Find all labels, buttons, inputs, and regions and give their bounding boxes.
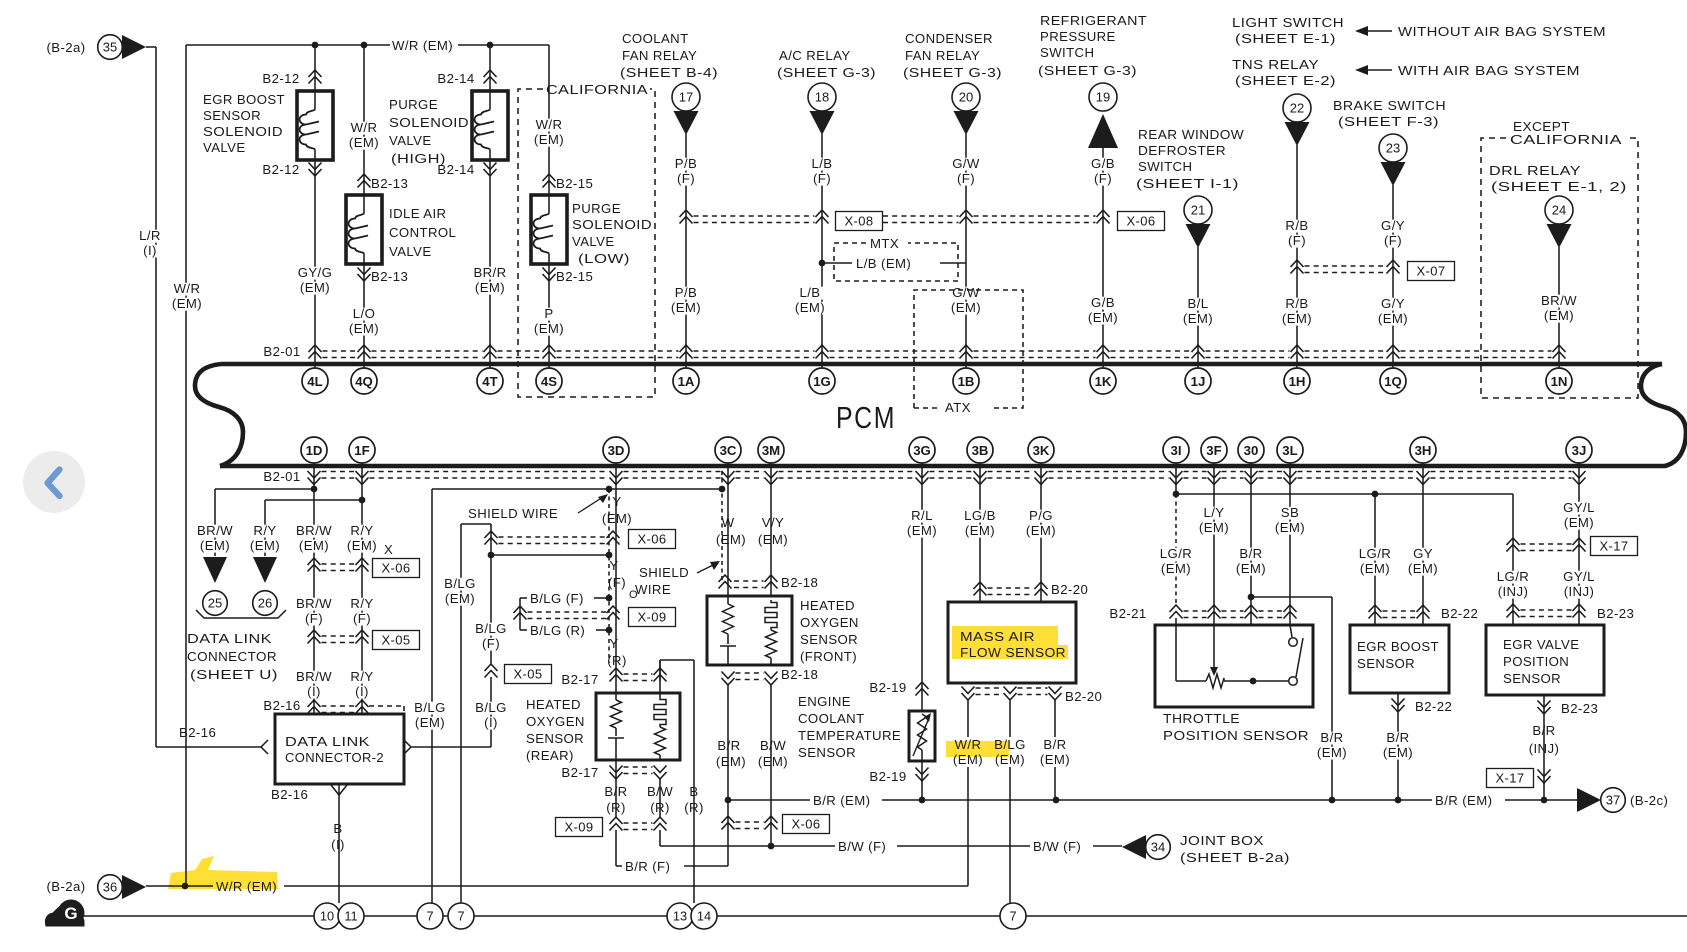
svg-text:1G: 1G (813, 374, 831, 389)
connector chevron bracket X-09 (514, 606, 527, 620)
svg-text:B2-16: B2-16 (263, 698, 300, 713)
svg-text:(B-2c): (B-2c) (1630, 793, 1668, 808)
svg-text:7: 7 (1009, 909, 1016, 924)
label BR/W (EM) x314 (296, 525, 333, 538)
svg-text:L/Y: L/Y (1204, 505, 1225, 520)
svg-text:FLOW SENSOR: FLOW SENSOR (960, 645, 1066, 660)
svg-text:B2-14: B2-14 (437, 162, 474, 177)
label P/B (EM) (672, 287, 701, 300)
label L/O (EM) (350, 308, 379, 321)
wire y555 to 3D (491, 554, 609, 556)
junction dot 1F branch (359, 497, 366, 504)
resistor TPS potentiometer (1206, 674, 1224, 688)
arrow 26 triangle (253, 557, 277, 583)
junction dot B/W(F) line (768, 843, 775, 850)
svg-text:R/Y: R/Y (350, 596, 373, 611)
svg-text:L/B (EM): L/B (EM) (856, 256, 911, 271)
wire B/R (F) horizontal (616, 865, 622, 867)
svg-text:X-05: X-05 (381, 633, 410, 648)
wire 3I column (1175, 463, 1177, 494)
svg-text:(EM): (EM) (965, 523, 995, 538)
svg-text:(EM): (EM) (1040, 752, 1070, 767)
svg-text:CALIFORNIA: CALIFORNIA (1510, 132, 1622, 147)
wire P (EM) 4S lower (548, 264, 550, 368)
PCM box top edge (221, 362, 1662, 367)
svg-text:(F): (F) (482, 636, 500, 651)
svg-text:SB: SB (1281, 505, 1299, 520)
arrow 35 triangle (122, 35, 146, 59)
highlight W/R B/LG under MAF (946, 741, 1009, 757)
wire 3B column (979, 463, 981, 602)
wire 4Q column upper (363, 45, 365, 195)
label BR/R (EM) (472, 267, 509, 280)
svg-text:W/R: W/R (955, 737, 982, 752)
svg-text:(EM): (EM) (300, 280, 330, 295)
highlight swoosh at bottom-left W/R (EM) (168, 856, 278, 889)
svg-text:(EM): (EM) (1282, 311, 1312, 326)
pin 1D (301, 437, 327, 463)
wire 3L column (1289, 463, 1291, 643)
svg-text:WIRE: WIRE (635, 582, 671, 597)
wire 4T column upper (489, 45, 491, 91)
wire B/R (EM) below front box (727, 685, 729, 866)
bus B2-01 top dashed pair (323, 350, 357, 352)
svg-text:CALIFORNIA: CALIFORNIA (546, 82, 648, 97)
label L/B (F) (808, 158, 837, 171)
svg-text:B2-13: B2-13 (371, 269, 408, 284)
svg-text:B2-15: B2-15 (556, 269, 593, 284)
resistor meander rear HO2S right (659, 660, 661, 697)
svg-text:R/B: R/B (1285, 218, 1308, 233)
wire L/R to DLC-2 (156, 746, 261, 748)
label B/R (EM) 30 (1237, 548, 1266, 561)
svg-text:(R): (R) (606, 800, 626, 815)
connector chevron B2-13 lower (358, 268, 371, 282)
wire 1K column (1102, 148, 1104, 368)
svg-text:(EM): (EM) (1317, 745, 1347, 760)
svg-text:G/Y: G/Y (1381, 218, 1405, 233)
svg-text:L/R: L/R (139, 228, 161, 243)
svg-text:(EM): (EM) (534, 132, 564, 147)
connector circle 36 (98, 875, 123, 900)
svg-text:R/Y: R/Y (350, 669, 373, 684)
terminal circle 7 (417, 903, 443, 929)
svg-text:B2-23: B2-23 (1561, 701, 1598, 716)
wire 3I dashed to TPS (1175, 494, 1177, 605)
svg-text:X-06: X-06 (791, 817, 820, 832)
svg-text:(SHEET I-1): (SHEET I-1) (1136, 176, 1239, 191)
svg-text:B/R (EM): B/R (EM) (813, 793, 870, 808)
component EGR valve position sensor box (1486, 625, 1604, 695)
svg-text:GY/G: GY/G (298, 265, 333, 280)
wire B/W (EM) below front box (770, 685, 772, 846)
PCM box right break squiggle (1641, 364, 1686, 466)
svg-text:Y: Y (612, 494, 621, 509)
svg-text:(SHEET U): (SHEET U) (190, 667, 278, 682)
label L/B (EM) (796, 287, 825, 300)
wire B/LG (I) x491 to DLC-2 (490, 677, 492, 747)
svg-text:(EM): (EM) (907, 523, 937, 538)
label G/Y (EM) (1379, 298, 1408, 311)
wire from arrow 35 to L/R column (146, 46, 156, 48)
svg-text:B: B (333, 821, 342, 836)
svg-text:B2-16: B2-16 (271, 787, 308, 802)
connector circle 18 (808, 83, 836, 111)
svg-text:B/R: B/R (1239, 546, 1262, 561)
svg-text:1Q: 1Q (1384, 374, 1402, 389)
svg-text:SWITCH: SWITCH (1040, 45, 1094, 60)
svg-text:R/B: R/B (1285, 296, 1308, 311)
connector chevron B2-23 lower (1538, 701, 1551, 715)
svg-text:SHIELD WIRE: SHIELD WIRE (468, 506, 558, 521)
svg-text:POSITION SENSOR: POSITION SENSOR (1163, 728, 1309, 743)
svg-text:(SHEET G-3): (SHEET G-3) (777, 65, 876, 80)
boxed label X-08 (836, 212, 883, 231)
svg-text:P: P (544, 306, 553, 321)
junction dot TPS (1250, 678, 1257, 685)
svg-text:(I): (I) (143, 243, 157, 258)
wire below EGR boost (1397, 693, 1399, 800)
junction dot 3D y555 (606, 552, 613, 559)
svg-text:SENSOR: SENSOR (800, 632, 858, 647)
svg-text:1J: 1J (1191, 374, 1206, 389)
label R/Y (I) (348, 671, 377, 684)
contact TPS lower (1289, 677, 1298, 686)
label GY/L (EM) (1561, 502, 1598, 515)
arrow 37 triangle (1577, 788, 1601, 812)
connector chevrons B2-17 upper (610, 668, 623, 682)
connector chevrons X-06 1D/1F (308, 558, 321, 572)
wire 30 column (1250, 463, 1252, 681)
wire 1N column (1558, 247, 1560, 368)
wire 3K column (1040, 463, 1042, 602)
connector chevrons B2-22 (1369, 605, 1382, 619)
svg-text:BR/W: BR/W (296, 596, 332, 611)
svg-text:G/W: G/W (952, 285, 980, 300)
boxed label X-07 (1408, 262, 1455, 281)
boxed label X-09 3D (629, 608, 676, 627)
svg-text:3K: 3K (1033, 443, 1050, 458)
svg-text:X-06: X-06 (381, 561, 410, 576)
svg-text:34: 34 (1151, 840, 1165, 855)
svg-text:(INJ): (INJ) (1564, 584, 1595, 599)
svg-text:SWITCH: SWITCH (1138, 159, 1192, 174)
wire shield horizontal y489 (432, 488, 722, 490)
junction dot MTX on 1G (819, 260, 826, 267)
junction dot B/LG(F) on 3D (606, 595, 613, 602)
label G/Y (F) (1379, 220, 1408, 233)
terminal circle 11 (338, 903, 364, 929)
svg-text:(SHEET G-3): (SHEET G-3) (903, 65, 1002, 80)
svg-text:(SHEET B-4): (SHEET B-4) (620, 65, 718, 80)
svg-text:(B-2a): (B-2a) (46, 879, 85, 894)
svg-text:TEMPERATURE: TEMPERATURE (798, 728, 901, 743)
svg-text:B/L: B/L (1188, 296, 1209, 311)
highlight MASS AIR FLOW SENSOR (952, 626, 1058, 645)
wire 1F column (361, 463, 363, 714)
svg-text:(SHEET E-2): (SHEET E-2) (1235, 73, 1336, 88)
wire bracket R to 3D (596, 629, 609, 631)
label W/R (EM) 4Q (350, 122, 379, 135)
wire 1H column (1296, 145, 1298, 368)
connector chevrons X-05 1D/1F (308, 630, 321, 644)
junction dot 3C shield y489 (719, 486, 726, 493)
svg-text:(EM): (EM) (795, 300, 825, 315)
svg-text:PRESSURE: PRESSURE (1040, 29, 1116, 44)
wire 1D column (313, 463, 315, 714)
svg-text:LG/B: LG/B (964, 508, 996, 523)
junction dot x1375 y494 (1372, 491, 1379, 498)
svg-text:(EM): (EM) (250, 538, 280, 553)
svg-text:(EM): (EM) (475, 280, 505, 295)
svg-text:B2-19: B2-19 (869, 769, 906, 784)
connector chevrons B2-20 upper (974, 582, 987, 596)
svg-text:GY/L: GY/L (1563, 569, 1595, 584)
connector chevron B2-19 upper (916, 682, 929, 696)
resistor front HO2S left (727, 596, 729, 604)
svg-text:Y: Y (609, 558, 618, 573)
wire B/W (R) to corner (659, 830, 661, 846)
svg-text:LIGHT SWITCH: LIGHT SWITCH (1232, 15, 1344, 30)
svg-text:SHIELD: SHIELD (639, 565, 689, 580)
component ECT thermistor box (909, 711, 935, 761)
svg-text:IDLE AIR: IDLE AIR (389, 206, 446, 221)
svg-text:3C: 3C (720, 443, 737, 458)
connector chevron B2-14 lower (484, 163, 497, 177)
terminal circle 14 (691, 903, 717, 929)
svg-text:DATA LINK: DATA LINK (285, 734, 370, 749)
wire 3G column (921, 463, 923, 711)
label R/Y (EM) x265 (251, 525, 280, 538)
connector chevrons B2-18 lower (722, 672, 735, 686)
boxed label X-06 left (373, 559, 420, 578)
svg-text:B2-23: B2-23 (1597, 606, 1634, 621)
connector chevrons B2-16 (308, 700, 321, 714)
svg-text:(EM): (EM) (1408, 561, 1438, 576)
wire B/LG (EM) x432 vertical (431, 489, 433, 903)
pin 1N (1546, 368, 1572, 394)
svg-text:1H: 1H (1289, 374, 1306, 389)
svg-text:L/O: L/O (353, 306, 375, 321)
connector chevrons B2-23 (1507, 604, 1520, 618)
pin 3K (1028, 437, 1054, 463)
resistor zigzag rear HO2S right (655, 727, 666, 755)
resistor rear HO2S left (615, 693, 617, 700)
svg-text:B/LG (F): B/LG (F) (530, 591, 584, 606)
svg-text:(F): (F) (353, 611, 371, 626)
label BR/W (F) (296, 598, 333, 611)
svg-text:(B-2a): (B-2a) (46, 40, 85, 55)
svg-text:W/R: W/R (351, 120, 378, 135)
wire branch 30 to x1332 (1251, 596, 1332, 598)
svg-text:EGR VALVE: EGR VALVE (1503, 637, 1579, 652)
label BR/W (EM) x215 (197, 525, 234, 538)
svg-text:B/LG: B/LG (994, 737, 1026, 752)
label LG/R (EM) 3I (1158, 548, 1195, 561)
svg-text:L/B: L/B (812, 156, 833, 171)
wire 3J column (1578, 463, 1580, 625)
svg-text:B/R: B/R (604, 784, 627, 799)
svg-text:B/W (F): B/W (F) (1033, 839, 1081, 854)
junction dots on top W/R line (312, 42, 319, 49)
wire 3C column (727, 463, 729, 596)
junction dot W/R bottom (182, 883, 189, 890)
thermistor zigzag (918, 714, 927, 750)
svg-text:18: 18 (815, 90, 829, 105)
svg-text:P/B: P/B (675, 285, 697, 300)
svg-text:(EM): (EM) (347, 538, 377, 553)
connector chevrons B2-17 lower (610, 766, 623, 780)
wire LG/R from y494 to EGR boost (1374, 494, 1376, 625)
svg-text:P/B: P/B (675, 156, 697, 171)
svg-text:1D: 1D (306, 443, 323, 458)
label G/B (F) (1089, 158, 1118, 171)
svg-text:10: 10 (320, 909, 334, 924)
boxed label X-05 left (373, 631, 420, 650)
svg-text:B/R: B/R (1043, 737, 1066, 752)
arrow 23 triangle (1381, 162, 1406, 186)
svg-text:REFRIGERANT: REFRIGERANT (1040, 13, 1147, 28)
svg-text:R/Y: R/Y (253, 523, 276, 538)
pin 30 (1238, 437, 1264, 463)
svg-text:B2-17: B2-17 (561, 672, 598, 687)
wire TPS wiper L/Y (1213, 625, 1215, 668)
svg-text:B2-12: B2-12 (262, 71, 299, 86)
svg-text:BRAKE SWITCH: BRAKE SWITCH (1333, 98, 1446, 113)
arrow 22 triangle (1285, 122, 1310, 146)
svg-text:V/Y: V/Y (762, 515, 784, 530)
label W/R (EM) left vertical (173, 283, 202, 296)
svg-text:G/B: G/B (1091, 156, 1115, 171)
connector chevron X-05 x491 (485, 664, 498, 678)
wire TPS SB to contact (1290, 625, 1292, 637)
svg-text:VALVE: VALVE (389, 244, 432, 259)
svg-text:B/R (EM): B/R (EM) (1435, 793, 1492, 808)
label B/R (EM) EGR boost (1384, 732, 1413, 745)
svg-text:(EM): (EM) (995, 752, 1025, 767)
svg-text:CONNECTOR: CONNECTOR (187, 649, 277, 664)
connector angle left DLC-2 (261, 740, 268, 754)
dashed pair X-08 1B-1K (974, 215, 1096, 217)
svg-text:(F): (F) (1094, 171, 1112, 186)
svg-text:X-07: X-07 (1416, 264, 1445, 279)
svg-text:3F: 3F (1206, 443, 1221, 458)
PCM box bottom edge (220, 464, 1666, 469)
terminal circle 10 (314, 903, 340, 929)
svg-text:ENGINE: ENGINE (798, 694, 851, 709)
arrow WITHOUT AIR BAG (1357, 30, 1392, 32)
boxed label X-06 bottom (783, 815, 830, 834)
svg-text:X-05: X-05 (513, 667, 542, 682)
svg-text:(EM): (EM) (349, 135, 379, 150)
junction dots B/R(EM) line (725, 797, 732, 804)
pin 4Q (351, 368, 377, 394)
svg-text:VALVE: VALVE (203, 140, 246, 155)
pointer shield wire lower (697, 564, 715, 573)
wire branch to DLC arrow 25 (215, 488, 314, 490)
boxed label X-05 shield (505, 665, 552, 684)
wire 3C shield dashed parallel (721, 471, 723, 582)
svg-text:SENSOR: SENSOR (203, 108, 261, 123)
svg-text:(EM): (EM) (953, 752, 983, 767)
svg-text:LG/R: LG/R (1160, 546, 1192, 561)
wire branch to DLC arrow 26 (265, 499, 362, 501)
dashed pair X-07 (1305, 265, 1386, 267)
bracket B/LG (F)/(R) (519, 598, 521, 630)
svg-text:W/R: W/R (174, 281, 201, 296)
boxed label X-17 upper (1591, 537, 1638, 556)
svg-text:G/W: G/W (952, 156, 980, 171)
wire L/O (EM) 4Q lower (363, 264, 365, 368)
label BR/W (I) (296, 671, 333, 684)
svg-text:(EM): (EM) (172, 296, 202, 311)
wire corner y494 to x1513 (1512, 494, 1514, 625)
svg-text:(EM): (EM) (1088, 310, 1118, 325)
junction dot x491 y555 (488, 552, 495, 559)
svg-text:B/LG: B/LG (475, 621, 507, 636)
svg-text:7: 7 (457, 909, 464, 924)
label R/Y (F) (348, 598, 377, 611)
label G/W (EM) (952, 287, 981, 300)
svg-text:X-06: X-06 (637, 532, 666, 547)
pin 1Q (1380, 368, 1406, 394)
svg-text:PURGE: PURGE (572, 201, 621, 216)
pin 4L (302, 368, 328, 394)
svg-text:B/R: B/R (1320, 730, 1343, 745)
svg-text:1B: 1B (958, 374, 975, 389)
wire L/R (I) vertical (155, 47, 157, 747)
svg-text:B/R: B/R (1532, 723, 1555, 738)
svg-text:B2-01: B2-01 (263, 344, 300, 359)
svg-text:COOLANT: COOLANT (622, 31, 689, 46)
wire MTX L/B (EM) link (822, 262, 852, 264)
svg-text:35: 35 (103, 40, 117, 55)
svg-text:SENSOR: SENSOR (526, 731, 584, 746)
label P/B (F) (672, 158, 701, 171)
svg-text:G/B: G/B (1091, 295, 1115, 310)
label G/B (EM) (1089, 297, 1118, 310)
connector chevrons B2-20 lower (962, 687, 975, 701)
svg-text:R/Y: R/Y (350, 523, 373, 538)
pin 3F (1201, 437, 1227, 463)
wire 3D shield dashed (608, 489, 610, 663)
svg-text:B/R: B/R (1386, 730, 1409, 745)
wire below EGR valve box (1543, 695, 1545, 800)
ground icon G circle (58, 900, 85, 927)
connector chevron B2-22 lower (1392, 699, 1405, 713)
svg-text:(EM): (EM) (1360, 561, 1390, 576)
label R/L (EM) (908, 510, 937, 523)
svg-text:LG/R: LG/R (1359, 546, 1391, 561)
label LG/B (EM) (962, 510, 999, 523)
thermistor strike line (913, 718, 929, 756)
dashed box EXCEPT CALIFORNIA (1481, 138, 1638, 398)
svg-text:(EM): (EM) (415, 715, 445, 730)
pin 1H (1284, 368, 1310, 394)
pin 3M (758, 437, 784, 463)
svg-text:(EM): (EM) (1236, 561, 1266, 576)
solenoid idle air control valve (346, 195, 382, 264)
svg-text:(INJ): (INJ) (1529, 741, 1560, 756)
svg-text:1A: 1A (678, 374, 695, 389)
connector chevron X-08 on 1G (816, 210, 829, 224)
wire B/R (R) below rear box (615, 760, 617, 817)
connector circle 26 (253, 591, 278, 616)
svg-text:(EM): (EM) (200, 538, 230, 553)
label gaps under MAF (950, 737, 987, 767)
svg-text:B/R (F): B/R (F) (625, 859, 670, 874)
connector chevron X-17 lower (1538, 770, 1551, 784)
